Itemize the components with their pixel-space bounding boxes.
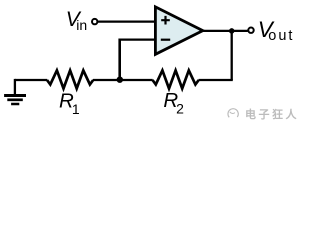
node junction at feedback / bottom wire: [117, 77, 123, 83]
wire R1 to R2 (through feedback node): [93, 79, 153, 81]
wire feedback horizontal to op-amp - input: [120, 38, 155, 40]
resistor R1: [47, 70, 93, 88]
svg-text:in: in: [76, 17, 87, 33]
input terminal Vin (open circle): [92, 19, 97, 24]
svg-text:out: out: [268, 28, 294, 44]
watermark logo: [228, 109, 238, 118]
op-amp - input marking: [161, 39, 170, 41]
node junction at output: [229, 28, 235, 34]
wire R2 to output corner: [199, 79, 233, 81]
wire ground to R1: [15, 79, 47, 81]
wire feedback vertical: [118, 39, 121, 81]
op-amp + input marking: [161, 16, 170, 25]
wire output down to R2: [231, 31, 233, 80]
wire Vin to op-amp + input: [98, 20, 155, 22]
op-amp U1 triangle: [155, 7, 202, 54]
svg-text:2: 2: [176, 101, 184, 117]
svg-text:电子狂人: 电子狂人: [245, 107, 299, 121]
output terminal Vout (open circle): [248, 28, 253, 33]
wire op-amp output: [203, 30, 248, 32]
resistor R2: [153, 70, 199, 88]
ground: [14, 79, 16, 95]
svg-text:1: 1: [72, 101, 80, 117]
